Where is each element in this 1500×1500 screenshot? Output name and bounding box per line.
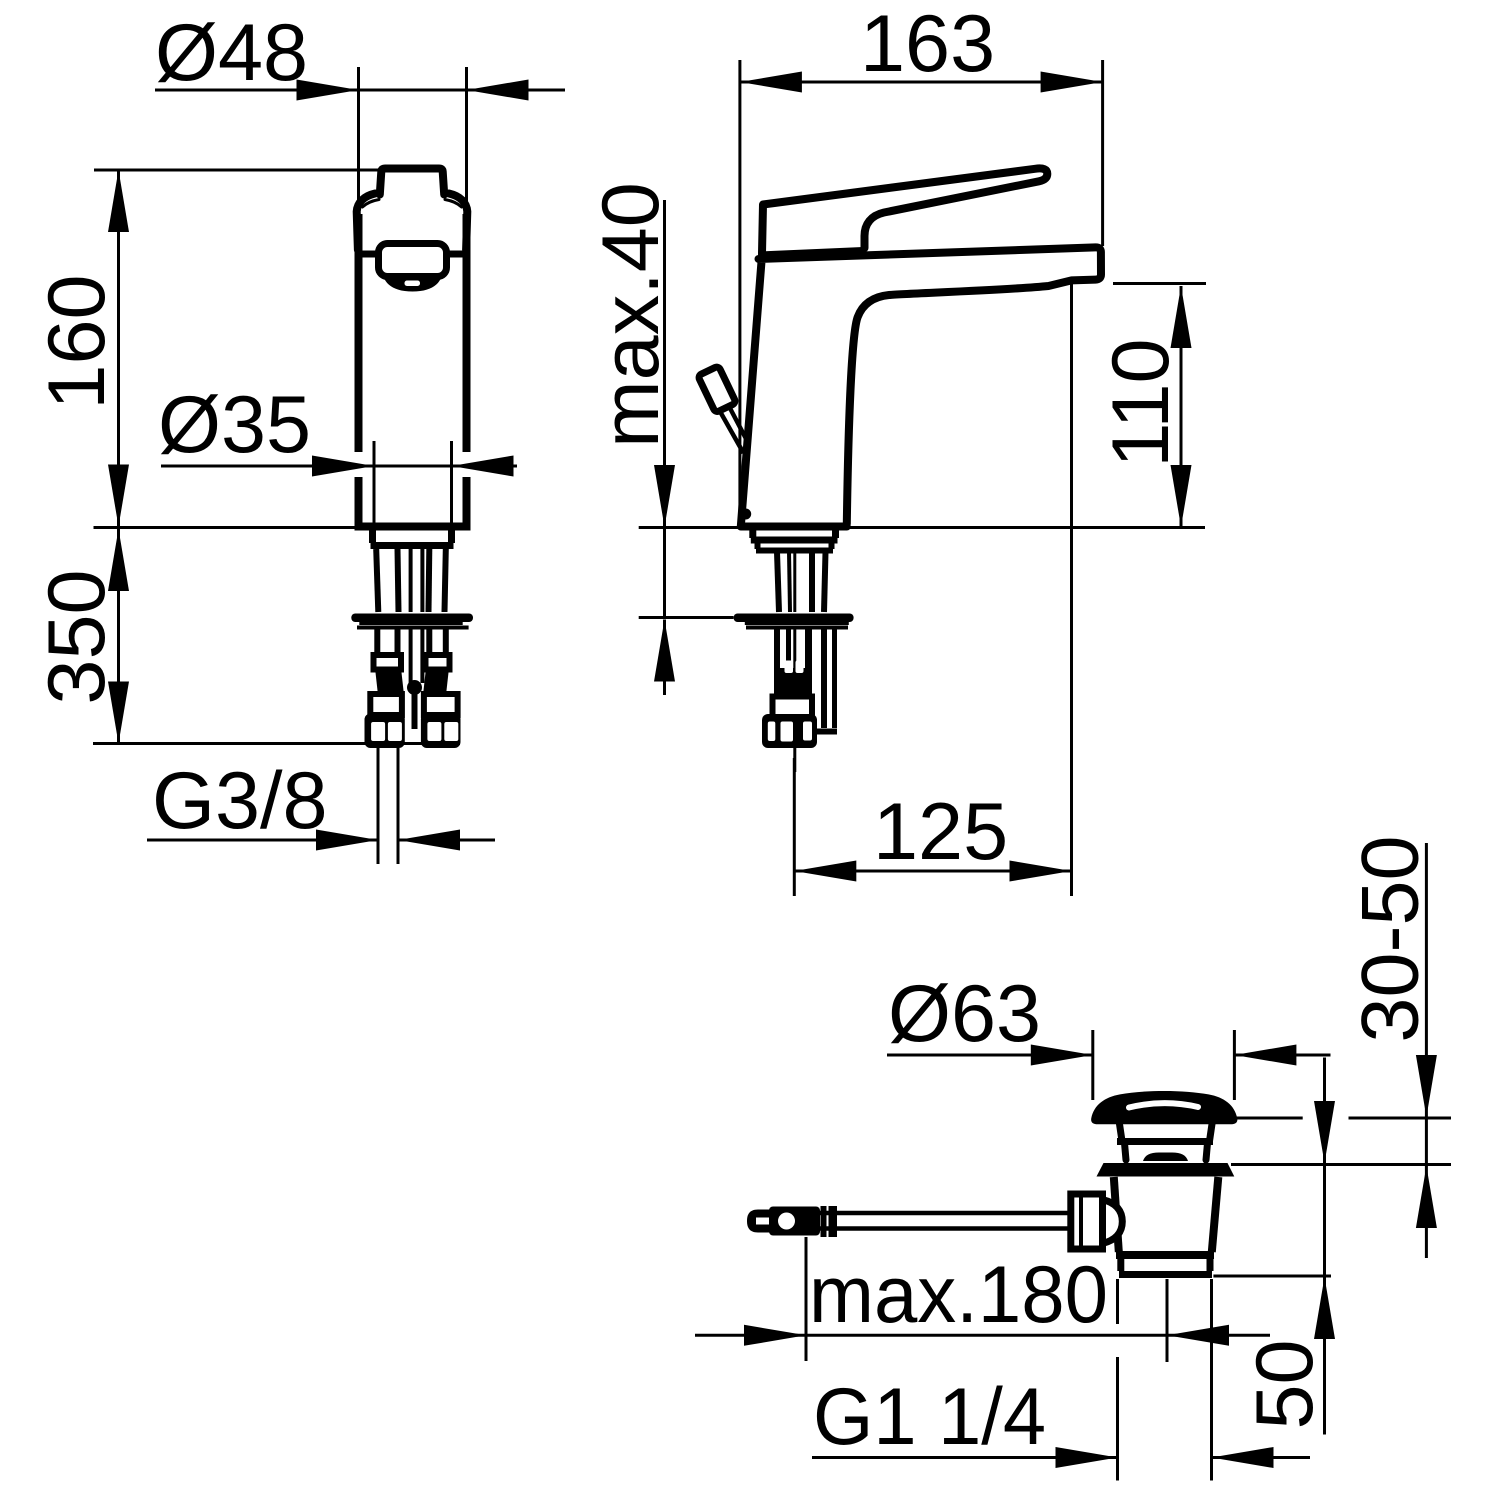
arrow Ø35 left — [312, 456, 374, 477]
ext line drain axis — [1166, 1279, 1169, 1362]
dim line 350 — [117, 528, 120, 744]
arrow 160 top — [108, 170, 129, 232]
cap neck upper — [1120, 1124, 1213, 1141]
hex nut right facet 1 — [427, 722, 441, 741]
side pull rod upper — [793, 552, 796, 612]
ext line Ø48 left — [357, 67, 360, 215]
rod bottom line — [775, 1226, 1071, 1231]
svg-text:50: 50 — [1240, 1339, 1330, 1429]
dim line max40 lower — [663, 620, 666, 696]
side escutcheon tier2 bottom — [756, 548, 833, 554]
faucet body side outline — [741, 247, 1101, 526]
dim line G3/8 left — [147, 839, 378, 842]
side hex nut facet 1 — [768, 722, 776, 742]
arrow Ø63 left — [1031, 1045, 1093, 1066]
ext line Ø48 right — [465, 67, 468, 215]
hex nut right facet 2 — [444, 722, 458, 741]
ext line Ø35 left — [373, 441, 376, 524]
plug bump — [1143, 1153, 1188, 1162]
drain body right wall — [1212, 1177, 1219, 1252]
arrow 30-50 up — [1416, 1166, 1437, 1228]
pull rod right line lower — [420, 629, 424, 683]
dim line max40 upper — [663, 200, 666, 527]
ext line rod pivot — [805, 1237, 808, 1361]
ext line Ø35 right — [450, 441, 453, 524]
arrow Ø48 right — [467, 80, 529, 101]
body right edge upper — [463, 214, 471, 452]
tail tube right inner — [426, 549, 433, 612]
hose left inner — [395, 629, 401, 656]
arrow 110 top — [1171, 286, 1192, 348]
flange thin line — [359, 622, 462, 625]
svg-text:110: 110 — [1096, 338, 1186, 467]
lever handle side — [762, 168, 1047, 253]
side tube right wall 1 — [821, 629, 827, 728]
tail tube right outer — [445, 549, 446, 612]
side tail tube 4 — [824, 552, 826, 612]
washer plane line — [1231, 1163, 1451, 1166]
arrow 125 left — [794, 861, 856, 882]
ext line G1 left lower — [1116, 1357, 1119, 1481]
side hose bend dark — [777, 668, 812, 697]
svg-text:350: 350 — [32, 569, 122, 704]
dim line max.180 — [695, 1334, 1270, 1337]
mounting flange bar — [351, 614, 473, 623]
hex nut left — [365, 714, 405, 749]
ext line flange top side — [639, 616, 734, 619]
ext line G3/8 left — [377, 748, 380, 864]
hose left outer — [374, 629, 380, 656]
rod top line — [775, 1211, 1071, 1216]
hex nut left facet 2 — [388, 722, 402, 741]
dim line Ø35 right tail — [452, 465, 518, 468]
dim line cap-height/50 — [1323, 1058, 1326, 1435]
arrow max40 up — [654, 620, 675, 682]
side hex nut — [762, 714, 817, 748]
side flange lower edge — [746, 626, 848, 630]
cap plane line seg1 — [1232, 1117, 1302, 1120]
pull rod ball front — [407, 680, 422, 695]
escutcheon left — [369, 528, 376, 543]
skirt shelf right — [446, 251, 467, 258]
ball socket dome — [1103, 1200, 1123, 1244]
side hex nut facet 2 — [781, 722, 794, 742]
arrow Ø35 right — [452, 456, 514, 477]
arrow G1 right — [1212, 1447, 1274, 1468]
body base — [355, 523, 471, 531]
side escutcheon right — [832, 529, 839, 538]
svg-text:max.180: max.180 — [809, 1250, 1108, 1340]
side hose slot 1 — [785, 661, 794, 674]
arrow Ø63 right — [1234, 1045, 1296, 1066]
cap plane line seg2 — [1349, 1117, 1452, 1120]
arrow max180 right — [1167, 1325, 1229, 1346]
side escutcheon tier2 left — [755, 542, 761, 549]
arrow Ø48 left — [297, 80, 359, 101]
clevis hole — [778, 1213, 795, 1230]
drain body bottom plate — [1116, 1251, 1214, 1259]
lever skirt right — [449, 194, 467, 251]
handle underside seam — [761, 251, 864, 256]
ext line spout mouth — [1113, 282, 1206, 285]
arrow 163 left — [740, 72, 802, 93]
skirt shelf left — [358, 251, 380, 258]
svg-text:163: 163 — [860, 0, 995, 89]
side mounting flange bar — [734, 614, 854, 623]
ext line counter side left — [639, 526, 739, 529]
pull rod knob — [698, 366, 736, 413]
ext line counter side right — [847, 526, 1205, 529]
arrow 110 bottom — [1171, 465, 1192, 527]
drain lower ring right — [1207, 1258, 1214, 1271]
side flange thin line — [745, 622, 849, 625]
dim line Ø48 right tail — [467, 89, 566, 92]
drain bottom edge — [1119, 1271, 1212, 1278]
rod housing block — [1071, 1194, 1103, 1249]
escutcheon bottom — [371, 542, 454, 549]
svg-text:Ø48: Ø48 — [155, 8, 308, 98]
dim line Ø63 right — [1234, 1054, 1330, 1057]
ext line hose bottom — [93, 742, 460, 745]
ext line spout tip vertical — [1070, 282, 1073, 896]
arrow 30-50 down — [1416, 1055, 1437, 1117]
drain body left wall — [1114, 1177, 1119, 1252]
tail tube left inner — [398, 549, 399, 612]
ext line top of faucet — [94, 169, 382, 172]
svg-text:125: 125 — [873, 787, 1008, 877]
side hose left wall — [774, 629, 780, 695]
pull rod ball side — [740, 509, 751, 520]
side tail tube 3 — [809, 552, 815, 612]
dim line Ø63 left — [887, 1054, 1093, 1057]
svg-text:G3/8: G3/8 — [152, 756, 328, 846]
hose bend left dark — [375, 668, 404, 695]
hose right outer — [443, 629, 449, 656]
svg-text:160: 160 — [32, 274, 122, 409]
ext line Ø63 left — [1091, 1030, 1094, 1100]
arrow cap height down — [1314, 1101, 1335, 1163]
side escutcheon tier2 right — [829, 542, 835, 549]
arrow G1 left — [1056, 1447, 1118, 1468]
pull rod line 2 — [729, 406, 749, 444]
flange lower edge — [357, 626, 469, 630]
side tube right wall 2 — [832, 629, 837, 728]
side hose mid wall — [805, 629, 812, 700]
dim line G1 left — [812, 1456, 1118, 1459]
rod collar 1 — [821, 1206, 827, 1237]
hose bend right dark — [423, 668, 449, 695]
body left edge upper — [355, 214, 363, 452]
svg-text:30-50: 30-50 — [1346, 835, 1436, 1042]
dim line 125 — [794, 870, 1071, 873]
side hose slot 2 — [796, 661, 804, 674]
side pull rod lower — [793, 629, 796, 772]
hex nut right — [421, 714, 461, 749]
aerator highlight dash — [405, 281, 421, 287]
pull rod left line — [409, 549, 413, 612]
side tail tube 2 — [789, 552, 790, 612]
cap neck band — [1117, 1138, 1213, 1145]
ext line 163 left — [738, 60, 741, 526]
ext line 163 right — [1101, 60, 1104, 246]
side escutcheon bottom — [751, 537, 838, 544]
ext line G1 left upper — [1116, 1279, 1119, 1324]
hose right inner — [426, 629, 432, 656]
arrow G3/8 right — [398, 830, 460, 851]
ext line G3/8 right — [397, 748, 400, 864]
drain lower ring left — [1117, 1258, 1124, 1271]
side hex nut facet 3 — [803, 722, 812, 741]
skirt inner curve left — [363, 200, 380, 208]
drain washer — [1097, 1163, 1235, 1177]
svg-text:Ø63: Ø63 — [888, 969, 1041, 1059]
arrow 350 bottom — [108, 682, 129, 744]
ext line G1 right — [1210, 1279, 1213, 1481]
dim line 30-50 — [1425, 843, 1428, 1258]
faucet front: lever cap — [380, 169, 444, 195]
skirt inner curve right — [445, 200, 462, 208]
body right edge lower — [463, 477, 471, 523]
dim line 110 — [1180, 286, 1183, 527]
dim line G1 right — [1212, 1456, 1311, 1459]
cap highlight — [1129, 1103, 1198, 1107]
side hose inner wall — [786, 629, 791, 662]
tail tube left outer — [376, 549, 378, 612]
arrow 125 right — [1010, 861, 1072, 882]
arrow max40 down — [654, 465, 675, 527]
pull rod lower front — [412, 694, 418, 729]
dim line Ø48 left — [155, 89, 359, 92]
cap step right — [443, 191, 452, 197]
hose connector left — [370, 694, 402, 715]
collar (cartridge ring) — [379, 244, 447, 277]
ext line faucet axis — [793, 758, 796, 896]
arrow 163 right — [1041, 72, 1103, 93]
arrow 50 up — [1314, 1277, 1335, 1339]
side hose connector — [773, 697, 813, 719]
rod left slot — [756, 1218, 775, 1225]
rod clevis block — [769, 1207, 820, 1236]
hose nipple right — [426, 655, 450, 670]
arrow max180 left — [744, 1325, 806, 1346]
dim line G3/8 right — [398, 839, 495, 842]
dim line 160 — [117, 170, 120, 528]
spout underside dark arc — [382, 268, 443, 292]
drain bottom plane line — [1213, 1275, 1331, 1278]
cap step left — [374, 191, 383, 197]
rod collar 2 — [829, 1206, 838, 1237]
side tail tube 1 — [777, 552, 779, 612]
cap neck lower — [1125, 1143, 1208, 1160]
arrow G3/8 left — [316, 830, 378, 851]
ext line Ø63 right — [1233, 1030, 1236, 1100]
svg-text:G1 1/4: G1 1/4 — [813, 1372, 1046, 1462]
side tube right foot — [813, 729, 837, 735]
dim line max40 middle — [663, 529, 666, 618]
svg-text:max.40: max.40 — [586, 182, 676, 448]
pop-up cap dome — [1091, 1091, 1237, 1124]
dim line Ø35 middle — [374, 465, 452, 468]
pull rod left line lower — [409, 629, 413, 683]
pull rod line 1 — [720, 411, 744, 454]
arrow 350 top — [108, 529, 129, 591]
rod housing inner line — [1079, 1196, 1083, 1247]
side escutcheon left — [749, 529, 756, 538]
rod left end cap — [747, 1210, 775, 1233]
lever skirt left — [357, 194, 375, 251]
arrow 160 bottom — [108, 465, 129, 527]
ext line counter plane left — [94, 526, 359, 529]
svg-text:Ø35: Ø35 — [158, 380, 311, 470]
dim line Ø48 middle — [359, 89, 467, 92]
hose nipple left — [374, 655, 402, 670]
body left edge lower — [355, 477, 363, 523]
dim line 163 — [740, 81, 1103, 84]
escutcheon right — [448, 528, 455, 543]
dim line Ø35 left — [161, 465, 374, 468]
hose connector right — [424, 694, 458, 715]
hex nut left facet 1 — [371, 722, 385, 741]
pull rod right line — [420, 549, 424, 612]
